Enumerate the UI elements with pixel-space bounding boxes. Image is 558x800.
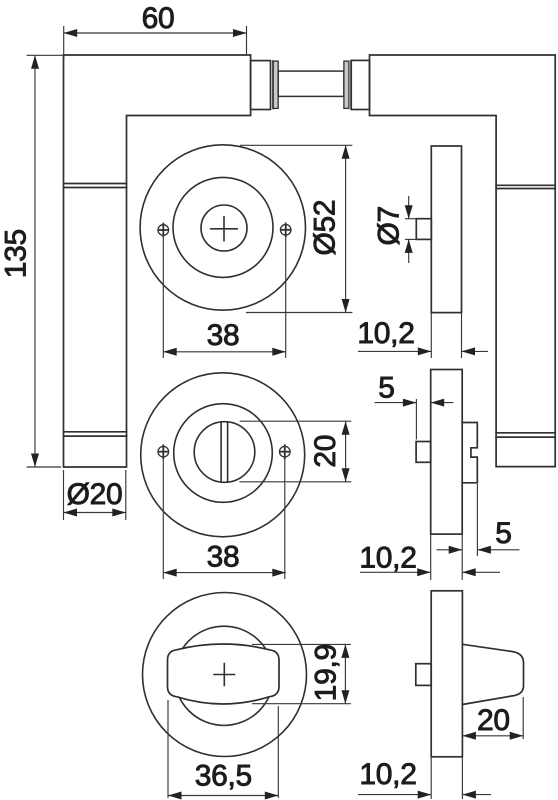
rose 2 middle circle xyxy=(174,404,273,503)
rose 1 right screw xyxy=(280,223,291,236)
dim 19,9 line xyxy=(344,644,346,703)
side view 1 spindle stub square xyxy=(416,219,431,240)
svg-text:19,9: 19,9 xyxy=(310,644,343,701)
svg-text:10,2: 10,2 xyxy=(357,317,414,350)
arrowheads dim 60 xyxy=(64,29,77,37)
arrowheads dim 135 xyxy=(31,55,39,69)
left handle neck joint lines xyxy=(64,184,127,188)
arrowheads dim 36,5 xyxy=(168,792,182,800)
dim O7 ticks xyxy=(405,219,416,240)
rose 1 middle circle xyxy=(173,177,273,277)
svg-text:38: 38 xyxy=(207,541,240,574)
arrowheads dim 10,2 middle xyxy=(417,568,431,576)
rose 3 middle circle xyxy=(174,626,273,725)
rose 2 outer circle xyxy=(141,373,305,537)
dim 20 line xyxy=(345,421,347,482)
arrowheads dim 38 upper xyxy=(163,348,177,356)
left spindle collar xyxy=(251,61,271,110)
dim 19,9 extension lines xyxy=(252,644,351,703)
rose 2 left screw xyxy=(158,445,169,458)
arrowheads dim O7 xyxy=(405,205,413,219)
dim O52 line xyxy=(345,145,347,312)
svg-text:36,5: 36,5 xyxy=(195,760,252,793)
left grey ring xyxy=(273,61,278,108)
dim 20 knob extension line xyxy=(522,697,524,739)
dim 135 top tick xyxy=(27,54,64,56)
dim O20 extension lines xyxy=(64,470,126,520)
rose 1 center cross xyxy=(211,217,238,241)
dim 135 bottom tick xyxy=(27,466,62,468)
arrowheads dim O20 xyxy=(64,509,78,517)
svg-text:38: 38 xyxy=(207,319,240,352)
spindle bar xyxy=(278,71,344,96)
left handle grip end cap lines xyxy=(64,432,127,436)
side view 3 inside square xyxy=(416,664,431,686)
side view 3 rose plate xyxy=(431,591,462,757)
dim 36,5 line xyxy=(168,795,278,797)
dim 5 lower leader right xyxy=(477,549,519,551)
svg-text:Ø20: Ø20 xyxy=(67,478,123,511)
rose 2 turn slot lines xyxy=(221,422,228,482)
svg-text:Ø52: Ø52 xyxy=(309,200,342,256)
rose 2 screw leader right xyxy=(284,458,286,579)
rose 2 right screw xyxy=(280,445,291,458)
dim O20 line xyxy=(64,512,126,514)
svg-text:20: 20 xyxy=(477,704,510,737)
rose 1 screw leader left xyxy=(162,236,164,358)
arrowheads dim 10,2 upper xyxy=(418,347,432,355)
dim 60 line xyxy=(64,32,247,34)
dim 5 lower extension line xyxy=(476,484,478,556)
right grey ring xyxy=(344,61,349,108)
svg-text:60: 60 xyxy=(142,2,175,35)
rose 1 left screw xyxy=(158,224,169,237)
side view 1 extension lines xyxy=(431,313,461,358)
rose 2 screw leader left xyxy=(162,458,164,579)
side view 2 right edge extension xyxy=(461,534,463,580)
dim 36,5 extension lines xyxy=(168,700,278,798)
dim 5 upper leader left xyxy=(375,402,417,404)
dim 5 upper leader right xyxy=(431,402,454,404)
side view 2 outside snib profile xyxy=(462,423,477,483)
right handle neck joint lines xyxy=(496,185,555,188)
svg-text:10,2: 10,2 xyxy=(359,758,416,791)
side view 1 rose plate xyxy=(431,146,461,313)
rose 3 outer circle xyxy=(143,593,307,757)
dim 5 upper extension line xyxy=(415,399,417,440)
arrowheads dim 5 lower xyxy=(449,546,463,554)
side view 2 rose plate xyxy=(431,370,463,535)
side view 2 inside turn square xyxy=(416,442,431,463)
arrowheads dim 5 upper xyxy=(403,399,417,407)
dim 38 lower line xyxy=(163,572,286,574)
arrowheads dim 20 knob xyxy=(462,732,476,740)
side view 2 left edge extension xyxy=(430,534,432,580)
rose 3 center cross xyxy=(214,664,235,686)
arrowheads dim O52 xyxy=(342,145,350,159)
rose 3 thumbturn knob front xyxy=(168,644,280,704)
svg-text:5: 5 xyxy=(378,372,394,405)
dim 5 lower leader left xyxy=(437,549,463,551)
rose 1 inner circle xyxy=(201,205,247,251)
dim 135 line xyxy=(34,55,36,467)
right collar ring line xyxy=(350,61,352,108)
arrowheads dim 38 lower xyxy=(163,569,177,577)
dim 20 knob line xyxy=(462,735,523,737)
dim 10,2 upper leaders xyxy=(358,350,488,352)
svg-text:Ø7: Ø7 xyxy=(372,206,405,245)
side view 3 thumbturn knob profile xyxy=(462,644,523,704)
arrowheads dim 10,2 bottom xyxy=(418,791,432,799)
side view 3 extension lines xyxy=(431,757,462,799)
dim 20 extension lines xyxy=(239,421,351,482)
right spindle collar xyxy=(351,60,369,109)
right lever handle outline xyxy=(370,55,556,467)
svg-text:10,2: 10,2 xyxy=(359,542,416,575)
rose 1 screw leader right xyxy=(285,236,287,358)
left collar ring line xyxy=(272,61,274,108)
svg-text:5: 5 xyxy=(495,517,511,550)
dim 10,2 middle leaders xyxy=(360,571,500,573)
right handle grip end cap lines xyxy=(496,433,555,437)
rose 2 turn circle xyxy=(194,422,255,483)
svg-text:20: 20 xyxy=(309,435,342,468)
left lever handle outline xyxy=(64,55,251,467)
svg-text:135: 135 xyxy=(0,229,33,278)
arrowheads dim 19,9 xyxy=(341,644,349,658)
dim O7 arrow stems xyxy=(408,196,410,263)
dim 38 upper line xyxy=(163,351,286,353)
rose 1 outer circle xyxy=(140,145,305,310)
dim 10,2 bottom leaders xyxy=(358,794,491,796)
arrowheads dim 20 rose2 xyxy=(342,421,350,435)
dim O52 extension lines xyxy=(240,145,352,312)
dim 60 extension lines xyxy=(64,26,247,60)
